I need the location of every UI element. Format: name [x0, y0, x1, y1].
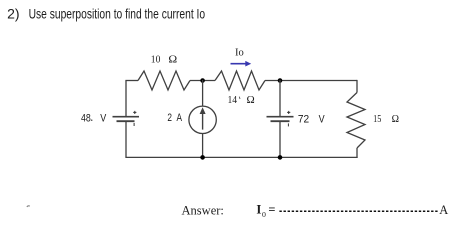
V2 minus tick	[287, 123, 289, 126]
svg-text:2): 2)	[7, 5, 19, 21]
wire: left vertical top segment	[125, 81, 127, 117]
wire: right vertical below R3	[356, 148, 358, 158]
current Io direction arrow (blue)	[231, 61, 252, 67]
svg-text:I: I	[256, 203, 261, 217]
svg-text:0: 0	[262, 210, 266, 219]
current source I1 wire top	[202, 80, 204, 106]
svg-text:Use superposition to find the: Use superposition to find the current Io	[29, 5, 206, 21]
wire: top rail between R2 and node B	[265, 80, 357, 82]
node A junction dot	[200, 78, 205, 83]
svg-text:15: 15	[373, 113, 382, 125]
node D junction dot (bottom of V2)	[278, 155, 283, 160]
svg-text:A: A	[177, 112, 183, 124]
stray pen mark lower left	[27, 205, 30, 208]
svg-text:Answer:: Answer:	[182, 203, 224, 217]
svg-text:Ω: Ω	[247, 94, 255, 106]
node C junction dot (bottom of current source)	[200, 155, 205, 160]
wire: left vertical bottom segment	[125, 121, 127, 157]
current source I1 wire bottom	[202, 134, 204, 158]
problem title text	[7, 5, 205, 21]
voltage source V2 72V battery top plate	[267, 116, 294, 118]
svg-text:72: 72	[298, 113, 309, 125]
voltage source V2 72V battery bottom plate	[271, 120, 290, 122]
voltage source V1 48V battery top plate	[113, 116, 140, 118]
svg-text:V: V	[100, 112, 107, 124]
svg-text:=: =	[268, 203, 275, 217]
label V1 trailing dot	[91, 119, 93, 121]
svg-text:10: 10	[151, 54, 161, 66]
wire: bottom rail	[125, 156, 357, 158]
svg-text:A: A	[439, 203, 448, 217]
current source I1 arrow	[200, 107, 206, 129]
V1 plus sign	[133, 111, 136, 114]
current source I1 circle	[189, 106, 216, 133]
V1 minus tick	[133, 123, 135, 126]
wire: right vertical above R3	[356, 80, 358, 93]
svg-text:Ω: Ω	[392, 113, 399, 125]
svg-text:Io: Io	[235, 46, 244, 58]
svg-text:Ω: Ω	[168, 54, 177, 66]
resistor R2 14 ohm zigzag	[215, 71, 265, 90]
voltage source V2 wire bottom	[279, 121, 281, 157]
svg-text:V: V	[319, 113, 326, 125]
V2 plus sign	[287, 111, 290, 114]
answer dashed blank line	[279, 210, 437, 212]
wire: top rail between R1 and node A	[190, 80, 215, 82]
svg-text:14: 14	[228, 94, 238, 106]
svg-text:48: 48	[81, 112, 91, 124]
label R2 stray tick mark	[238, 97, 241, 99]
voltage source V1 48V battery bottom plate	[117, 120, 135, 122]
wire: top rail left segment	[125, 80, 138, 82]
svg-text:2: 2	[167, 112, 172, 124]
voltage source V2 wire top	[279, 80, 281, 116]
resistor R1 10 ohm zigzag	[138, 71, 190, 90]
node B junction dot	[278, 78, 283, 83]
resistor R3 15 ohm vertical zigzag	[347, 93, 365, 149]
